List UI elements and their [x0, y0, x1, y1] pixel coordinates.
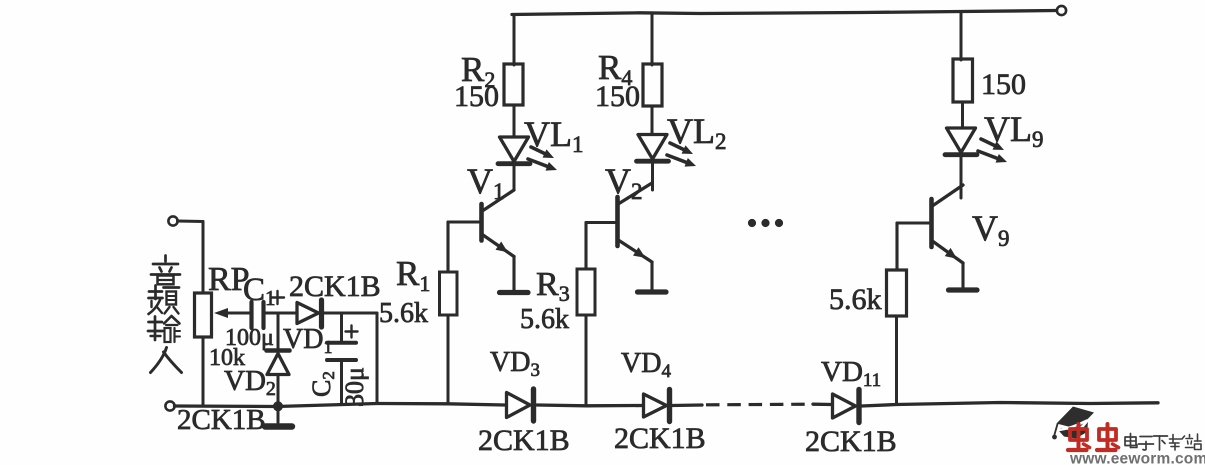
svg-text:VD3: VD3 — [490, 347, 540, 381]
svg-text:5.6k: 5.6k — [829, 283, 882, 316]
svg-text:V1: V1 — [467, 161, 505, 204]
svg-text:C2: C2 — [307, 371, 338, 397]
svg-text:www.eeworm.com: www.eeworm.com — [1069, 451, 1205, 465]
svg-text:V9: V9 — [972, 208, 1010, 251]
svg-text:30μ: 30μ — [340, 367, 369, 407]
svg-text:VL9: VL9 — [984, 109, 1044, 152]
svg-text:2CK1B: 2CK1B — [177, 404, 266, 436]
svg-text:150: 150 — [454, 80, 499, 113]
svg-text:C1: C1 — [243, 272, 276, 310]
svg-text:2CK1B: 2CK1B — [478, 424, 570, 457]
svg-text:VL1: VL1 — [524, 114, 584, 157]
svg-text:R1: R1 — [396, 254, 430, 296]
svg-text:VD1: VD1 — [283, 324, 332, 357]
svg-text:150: 150 — [981, 68, 1026, 101]
svg-text:5.6k: 5.6k — [379, 298, 428, 329]
svg-text:VD4: VD4 — [621, 348, 671, 382]
svg-text:2CK1B: 2CK1B — [614, 422, 706, 455]
svg-text:VD11: VD11 — [821, 356, 881, 391]
svg-text:R3: R3 — [536, 266, 570, 306]
svg-text:2CK1B: 2CK1B — [289, 270, 381, 303]
svg-text:2CK1B: 2CK1B — [805, 425, 897, 458]
svg-text:V2: V2 — [605, 161, 643, 204]
svg-text:5.6k: 5.6k — [520, 304, 569, 335]
svg-text:VL2: VL2 — [667, 111, 727, 154]
svg-text:150: 150 — [595, 80, 640, 113]
